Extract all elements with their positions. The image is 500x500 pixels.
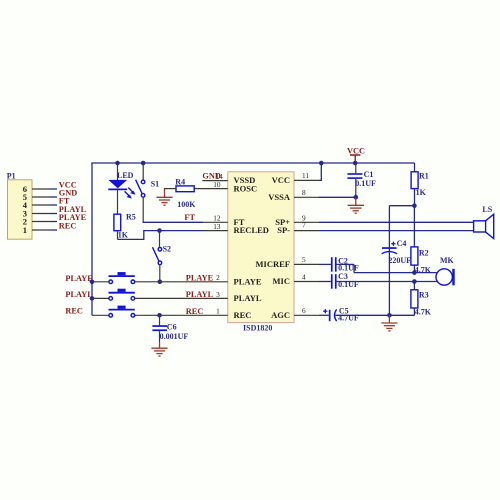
svg-text:R4: R4 bbox=[175, 178, 185, 187]
pushbutton PLAYE bbox=[109, 272, 135, 284]
capacitor C4 bbox=[382, 239, 411, 265]
wire LED to R5 bbox=[117, 189, 119, 214]
svg-text:MICREF: MICREF bbox=[256, 259, 290, 269]
wire C3 out to MIC node bbox=[337, 281, 415, 283]
svg-text:10: 10 bbox=[213, 180, 221, 189]
pushbutton PLAYL bbox=[109, 289, 135, 301]
resistor R5 bbox=[114, 212, 136, 239]
wire P1 pin2 PLAYE bbox=[32, 213, 87, 222]
wire P1 pin4 FT bbox=[32, 196, 70, 205]
switch S1 bbox=[136, 180, 160, 198]
wire REC row right bbox=[135, 307, 228, 316]
pin 4 MIC stub bbox=[294, 272, 331, 281]
svg-text:S1: S1 bbox=[151, 180, 159, 189]
svg-text:S2: S2 bbox=[163, 245, 171, 254]
svg-text:13: 13 bbox=[213, 222, 221, 231]
junction dot S1/rail bbox=[141, 161, 146, 166]
svg-text:220UF: 220UF bbox=[388, 256, 411, 265]
speaker LS bbox=[474, 205, 494, 239]
svg-text:PLAYL: PLAYL bbox=[65, 290, 93, 299]
svg-text:11: 11 bbox=[302, 171, 309, 180]
ground below AGC node bbox=[381, 315, 397, 331]
IC U1 ISD1820 body bbox=[228, 172, 294, 332]
junction dot AGC/C4 ground bbox=[387, 313, 392, 318]
LED branch top stub bbox=[117, 163, 119, 180]
wire FT row bbox=[143, 213, 228, 223]
wire P1 pin6 VCC bbox=[32, 180, 77, 189]
wire S2 top stub bbox=[159, 231, 161, 248]
junction dot S2 bottom bbox=[158, 280, 163, 285]
svg-text:4: 4 bbox=[302, 272, 306, 281]
capacitor C1 bbox=[347, 170, 376, 188]
junction dot C6 on REC row bbox=[157, 313, 162, 318]
svg-text:PLAYE: PLAYE bbox=[234, 276, 262, 286]
svg-text:1K: 1K bbox=[118, 231, 129, 240]
capacitor C3 bbox=[331, 272, 359, 289]
wire C6 bottom bbox=[159, 331, 161, 342]
ground below VSSA bbox=[348, 197, 364, 213]
svg-text:6: 6 bbox=[302, 306, 306, 315]
svg-text:C1: C1 bbox=[364, 170, 374, 179]
svg-text:3: 3 bbox=[216, 290, 220, 299]
svg-text:2: 2 bbox=[216, 273, 220, 282]
svg-text:VSSA: VSSA bbox=[268, 192, 291, 202]
svg-text:R3: R3 bbox=[419, 291, 429, 300]
svg-text:MIC: MIC bbox=[273, 276, 290, 286]
junction dot rail PLAYL bbox=[90, 296, 95, 301]
junction dot MICREF node bbox=[412, 270, 417, 275]
svg-text:MK: MK bbox=[440, 256, 455, 265]
wire PLAYL row left bbox=[65, 290, 108, 299]
svg-text:C6: C6 bbox=[167, 322, 177, 331]
wire P1 pin5 GND bbox=[32, 188, 77, 197]
svg-text:1: 1 bbox=[216, 307, 220, 316]
svg-text:SP-: SP- bbox=[277, 225, 290, 235]
pin 6 AGC stub bbox=[294, 306, 329, 315]
junction dot R1 bottom bbox=[412, 203, 417, 208]
svg-text:R5: R5 bbox=[126, 212, 136, 221]
pushbutton REC bbox=[109, 306, 135, 318]
junction dot VCC/rail bbox=[353, 161, 358, 166]
wire S1 bottom to FT row bbox=[142, 197, 144, 222]
svg-text:VCC: VCC bbox=[272, 175, 290, 185]
svg-text:R1: R1 bbox=[419, 171, 429, 180]
wire C2 out to MICREF node bbox=[337, 264, 415, 272]
svg-text:100K: 100K bbox=[177, 200, 196, 209]
wire MIC node to mic bbox=[414, 281, 437, 283]
svg-text:0.001UF: 0.001UF bbox=[160, 332, 189, 341]
wire MICREF node to mic bbox=[414, 272, 437, 274]
resistor R3 bbox=[411, 290, 432, 317]
svg-text:PLAYE: PLAYE bbox=[186, 274, 214, 283]
wire C4 bottom riser bbox=[388, 252, 390, 315]
ground below R4 bbox=[156, 190, 172, 205]
switch S2 bbox=[153, 245, 172, 265]
pin 14 VSSD wire + GND net label bbox=[202, 172, 227, 182]
svg-text:1: 1 bbox=[23, 225, 27, 235]
resistor R4 bbox=[175, 178, 196, 209]
wire S2 bottom to PLAYE row bbox=[159, 265, 161, 282]
svg-text:PLAYL: PLAYL bbox=[186, 290, 214, 299]
svg-text:P1: P1 bbox=[7, 171, 16, 180]
wire P1 pin1 REC bbox=[32, 221, 76, 230]
wire R5 bottom stub bbox=[117, 231, 119, 240]
wire R2 top stem bbox=[413, 206, 415, 247]
svg-text:8: 8 bbox=[302, 188, 306, 197]
svg-text:7: 7 bbox=[302, 220, 306, 229]
wire R3 top stem bbox=[413, 282, 415, 290]
power VCC symbol bbox=[347, 146, 365, 162]
svg-text:AGC: AGC bbox=[271, 310, 290, 320]
svg-text:LS: LS bbox=[482, 205, 492, 214]
svg-text:4.7K: 4.7K bbox=[415, 307, 432, 316]
ground below C6 bbox=[151, 342, 167, 356]
resistor R1 bbox=[411, 171, 429, 197]
svg-text:R2: R2 bbox=[419, 248, 429, 257]
wire R5 to RECLED elbow bbox=[118, 231, 144, 240]
junction dot MIC node bbox=[412, 279, 417, 284]
svg-text:RECLED: RECLED bbox=[234, 225, 269, 235]
svg-text:PLAYE: PLAYE bbox=[65, 274, 93, 283]
wire R1 top stem bbox=[414, 163, 416, 172]
svg-text:REC: REC bbox=[65, 307, 83, 316]
junction dot pin11/rail bbox=[319, 161, 324, 166]
junction dot rail PLAYE bbox=[90, 280, 95, 285]
svg-text:1K: 1K bbox=[416, 188, 427, 197]
wire PLAYL row right bbox=[135, 290, 228, 299]
wire PLAYE row right bbox=[135, 273, 228, 282]
svg-text:REC: REC bbox=[59, 221, 77, 230]
svg-text:ROSC: ROSC bbox=[234, 183, 258, 193]
svg-text:FT: FT bbox=[184, 213, 195, 222]
wire C1 bottom stem bbox=[355, 179, 357, 194]
wire pin11 riser to rail bbox=[319, 163, 321, 181]
junction dot VSSA/C1 bbox=[354, 195, 359, 200]
svg-text:5: 5 bbox=[302, 255, 306, 264]
wire R3 bottom stem bbox=[413, 308, 415, 315]
wire RECLED row bbox=[143, 222, 228, 231]
wire PLAYE row left bbox=[65, 274, 108, 283]
wire C6 stem bbox=[159, 315, 161, 325]
junction dot LED/rail bbox=[115, 161, 120, 166]
LED D1 bbox=[108, 171, 135, 198]
svg-text:LED: LED bbox=[117, 171, 134, 180]
switch S1 top stub bbox=[142, 163, 144, 180]
wire P1 pin3 PLAYL bbox=[32, 205, 87, 214]
pin 9 SP+ wire to speaker bbox=[294, 213, 474, 222]
pin 11 VCC stub bbox=[294, 171, 319, 180]
svg-text:ISD1820: ISD1820 bbox=[243, 323, 272, 332]
capacitor C5 bbox=[323, 307, 359, 323]
svg-text:C4: C4 bbox=[397, 239, 407, 248]
connector P1 body bbox=[7, 171, 32, 239]
capacitor C2 bbox=[331, 256, 359, 272]
wire node to C4 riser bbox=[389, 206, 414, 253]
svg-text:REC: REC bbox=[234, 310, 252, 320]
wire R1 bottom stem bbox=[414, 189, 416, 206]
resistor R2 bbox=[411, 247, 432, 274]
wire R4 left elbow bbox=[165, 188, 177, 191]
junction dot S2 top bbox=[157, 228, 162, 233]
wire R2 bottom stem bbox=[413, 265, 415, 273]
wire VCC top rail bbox=[91, 162, 414, 164]
svg-text:VCC: VCC bbox=[347, 146, 365, 155]
svg-text:PLAYL: PLAYL bbox=[234, 293, 262, 303]
pin 7 SP- wire to speaker bbox=[294, 220, 474, 230]
pin 10 ROSC stub bbox=[194, 180, 228, 189]
wire C1 top stem bbox=[355, 163, 357, 173]
wire C5 out to AGC node bbox=[336, 314, 415, 316]
svg-text:0.1UF: 0.1UF bbox=[355, 179, 376, 188]
pin 8 VSSA wire bbox=[294, 188, 356, 197]
microphone MK bbox=[436, 256, 455, 285]
pin 5 MICREF stub bbox=[294, 255, 331, 264]
wire left rail bbox=[91, 163, 93, 315]
capacitor C6 bbox=[152, 322, 188, 341]
wire REC row left bbox=[65, 307, 108, 316]
svg-text:REC: REC bbox=[186, 307, 204, 316]
